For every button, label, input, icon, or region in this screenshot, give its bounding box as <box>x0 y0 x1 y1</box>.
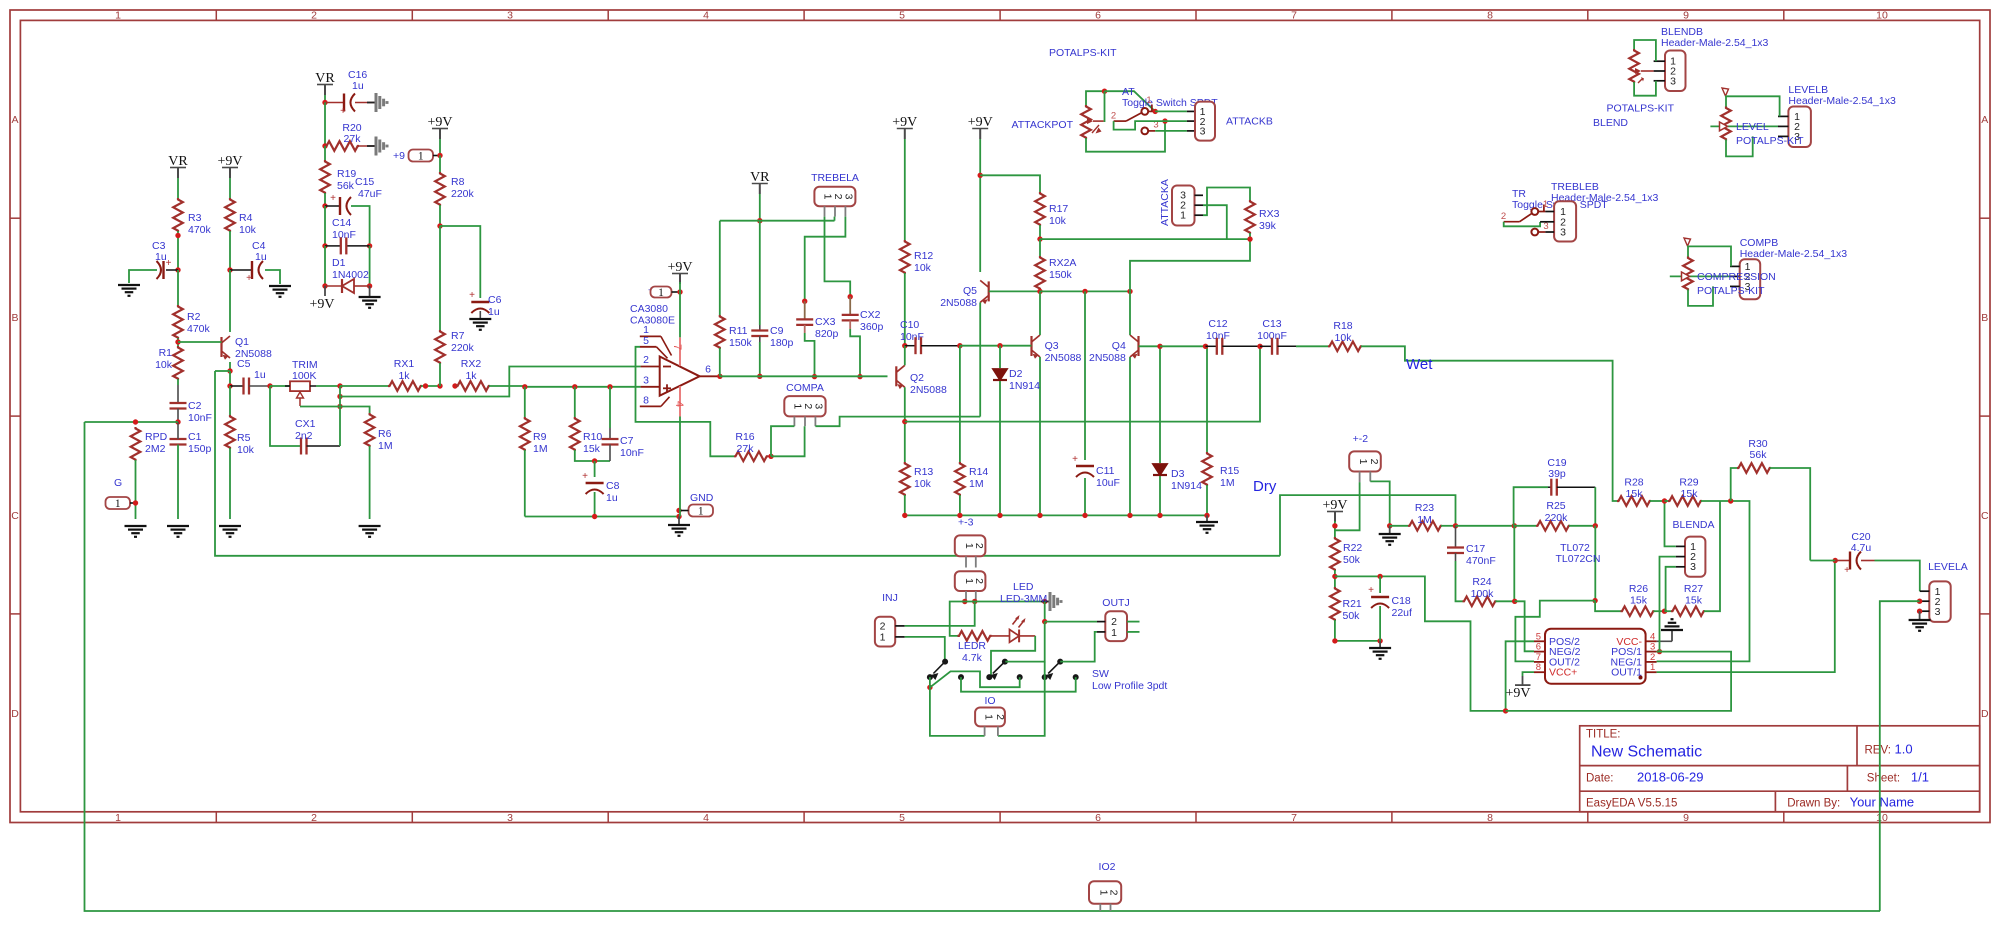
svg-text:Q3: Q3 <box>1045 340 1059 352</box>
wire Vb rail to POS/1 <box>1506 652 1732 711</box>
node C4/Q1 collector <box>227 267 232 272</box>
node C19/R25 left <box>1512 523 1517 528</box>
wire LED node down <box>1044 602 1046 622</box>
potentiometer TRIM <box>290 381 310 391</box>
wire +9V to R22 <box>1334 521 1336 537</box>
wire COMP pot top to pin1 <box>1688 246 1731 266</box>
node D2 top <box>997 343 1002 348</box>
transistor Q4 (mirrored) <box>1137 336 1139 356</box>
wire POS/1 stub <box>1657 651 1663 653</box>
wire pin5 bias loop to R16 <box>636 347 735 457</box>
capacitor C17 <box>1455 526 1457 548</box>
svg-text:Q4: Q4 <box>1112 340 1126 352</box>
wire rail to CA3080 pin3 <box>525 386 641 388</box>
wire C12 node to R15 <box>1206 346 1208 452</box>
svg-text:R29: R29 <box>1679 477 1698 489</box>
pin 6 output <box>700 375 720 377</box>
capacitor C11 <box>1076 465 1094 467</box>
svg-text:D: D <box>11 708 19 720</box>
svg-text:+: + <box>582 471 588 482</box>
svg-text:1: 1 <box>822 194 834 200</box>
svg-text:+9V: +9V <box>309 297 334 312</box>
wire output rail to Q2 base <box>720 375 888 377</box>
wire node up to R30 <box>1731 468 1737 501</box>
node Q2 emitter rail <box>902 419 907 424</box>
node D1 <box>322 283 327 288</box>
svg-text:220k: 220k <box>451 188 475 200</box>
node +9 <box>437 153 442 158</box>
svg-text:3: 3 <box>1560 227 1566 239</box>
wire TREBELA row to R11 <box>719 221 721 315</box>
svg-text:1u: 1u <box>254 369 266 381</box>
svg-text:10nF: 10nF <box>332 229 356 241</box>
svg-text:REV:: REV: <box>1865 745 1891 757</box>
stub <box>1206 345 1208 347</box>
svg-text:10k: 10k <box>155 359 173 371</box>
terminator flag (LED rail) <box>1041 601 1050 603</box>
svg-text:1: 1 <box>115 498 121 510</box>
potentiometer LEVEL <box>1721 107 1731 141</box>
wire R30 to C20 node <box>1770 468 1810 561</box>
resistor R18 <box>1328 342 1362 352</box>
node POS/1 <box>1657 649 1662 654</box>
svg-text:1: 1 <box>1097 890 1109 896</box>
svg-text:2: 2 <box>973 543 985 549</box>
svg-text:C9: C9 <box>770 325 784 337</box>
wire R21 to bottom <box>1335 620 1380 641</box>
ground (R5) <box>219 525 241 527</box>
svg-text:1: 1 <box>791 403 803 409</box>
svg-text:100k: 100k <box>1471 588 1495 600</box>
resistor RX2 <box>456 381 490 391</box>
wire COMPA pin1 to R16 <box>771 426 794 456</box>
svg-text:Header-Male-2.54_1x3: Header-Male-2.54_1x3 <box>1788 95 1896 107</box>
svg-text:7: 7 <box>1291 812 1297 824</box>
wire +9V to R12 <box>904 139 906 240</box>
node R23 right <box>1453 523 1458 528</box>
svg-text:220k: 220k <box>1545 512 1569 524</box>
wire COMPA pin2 to R16 node <box>771 426 805 456</box>
node C20 left <box>1833 558 1838 563</box>
svg-text:Date:: Date: <box>1586 773 1614 785</box>
resistor R2 <box>173 305 183 339</box>
svg-text:2: 2 <box>973 578 985 584</box>
node C12 left <box>1203 344 1208 349</box>
resistor R19 <box>320 160 330 194</box>
svg-text:Your Name: Your Name <box>1850 795 1915 810</box>
node C9 out <box>757 374 762 379</box>
svg-text:1: 1 <box>698 506 704 518</box>
node pot/wiper <box>1102 89 1107 94</box>
node Q1 emitter <box>227 368 232 373</box>
svg-text:C14: C14 <box>332 217 351 229</box>
node Q3 collector <box>1037 289 1042 294</box>
svg-text:C11: C11 <box>1096 465 1115 477</box>
transistor Q1 <box>220 337 222 357</box>
node C10 left <box>902 343 907 348</box>
wire TRIM node to RX1 <box>340 385 388 387</box>
svg-text:9: 9 <box>1683 812 1689 824</box>
svg-text:2: 2 <box>832 194 844 200</box>
wire rail to Q4 collector <box>1129 291 1131 335</box>
wire R4 to C4 node <box>229 231 231 270</box>
svg-text:6: 6 <box>1095 10 1101 22</box>
svg-text:7: 7 <box>1291 10 1297 22</box>
wire VCC+ to +9V flag <box>1523 672 1535 676</box>
svg-text:C18: C18 <box>1392 595 1411 607</box>
wire pin4 to gnd rail <box>679 417 681 517</box>
svg-text:+9V: +9V <box>1505 686 1530 701</box>
wire gnd rail <box>525 516 679 518</box>
wire R29 to NEG/1 <box>1657 501 1750 661</box>
svg-text:LED-3MM: LED-3MM <box>1000 593 1047 605</box>
svg-text:27k: 27k <box>344 133 362 145</box>
svg-text:2M2: 2M2 <box>145 443 166 455</box>
svg-text:2: 2 <box>1501 211 1506 222</box>
wire C4 node to Q1 collector <box>229 270 231 332</box>
wire wiper to R6 <box>300 407 370 414</box>
node Q1 base <box>175 339 180 344</box>
wire +-3 rail <box>905 514 1207 516</box>
svg-text:COMPA: COMPA <box>786 382 824 394</box>
node AT throw 1 <box>1153 109 1158 114</box>
wire Q2 collector up <box>904 346 906 366</box>
svg-text:R15: R15 <box>1220 465 1239 477</box>
ground (+-3 rail) <box>1206 515 1208 521</box>
wire R7 to rail <box>439 363 441 386</box>
wire base rail to Q3 <box>1000 345 1032 347</box>
svg-text:C: C <box>1981 510 1989 522</box>
wire C6 node to R7 <box>439 226 441 330</box>
svg-text:R19: R19 <box>337 168 356 180</box>
wire emitter bus to C13 <box>905 346 1260 421</box>
svg-text:OUT/1: OUT/1 <box>1611 667 1642 679</box>
wire +-2 pin1 to +9V node <box>1335 482 1360 530</box>
svg-text:1N4002: 1N4002 <box>332 269 369 281</box>
svg-text:2: 2 <box>802 403 814 409</box>
wire S1L to node <box>929 677 931 687</box>
wire to CA3080 pin 2 <box>340 367 641 397</box>
resistor R12 <box>900 240 910 274</box>
node C11 drop <box>1082 289 1087 294</box>
svg-text:8: 8 <box>643 395 649 407</box>
svg-text:R27: R27 <box>1684 583 1703 595</box>
svg-text:Wet: Wet <box>1406 356 1433 373</box>
svg-text:2018-06-29: 2018-06-29 <box>1637 770 1704 785</box>
svg-text:+: + <box>1844 565 1850 576</box>
potentiometer COMPRESSION <box>1683 257 1693 291</box>
node R26/R27 <box>1662 609 1667 614</box>
svg-text:TL072CN: TL072CN <box>1556 553 1601 565</box>
node VR row <box>757 218 762 223</box>
svg-text:POTALPS-KIT: POTALPS-KIT <box>1607 103 1675 115</box>
node R8/C6 <box>437 223 442 228</box>
wire to ATTACKB 2 <box>1165 120 1187 122</box>
svg-text:CA3080: CA3080 <box>630 303 668 315</box>
wire emitter to C5 <box>229 371 231 386</box>
svg-text:Q1: Q1 <box>235 336 249 348</box>
node S1 pole <box>927 685 932 690</box>
wire RX2 to op-amp rail <box>489 385 525 387</box>
svg-text:R6: R6 <box>378 428 392 440</box>
svg-text:1k: 1k <box>398 370 410 382</box>
svg-text:2: 2 <box>1108 890 1120 896</box>
svg-text:C13: C13 <box>1262 318 1281 330</box>
wire to S2 throw <box>1005 622 1044 662</box>
svg-text:ATTACKPOT: ATTACKPOT <box>1012 119 1074 131</box>
wire OUTJ pin1 stub <box>1127 631 1140 633</box>
wire R23 to Dry node <box>1441 525 1456 527</box>
wire stub TREBELA pin2 <box>834 217 836 221</box>
svg-text:R9: R9 <box>533 431 547 443</box>
svg-text:1M: 1M <box>378 440 393 452</box>
svg-text:15k: 15k <box>1626 488 1644 500</box>
svg-text:1M: 1M <box>1220 477 1235 489</box>
svg-text:10nF: 10nF <box>1206 330 1230 342</box>
resistor R7 <box>435 330 445 364</box>
svg-text:R3: R3 <box>188 212 202 224</box>
svg-text:5: 5 <box>899 812 905 824</box>
wire Q5 emitter down <box>979 302 981 416</box>
wire CX2 to output rail <box>850 329 860 377</box>
svg-text:Q2: Q2 <box>910 372 924 384</box>
wire pot bottom to pin2 node <box>1086 121 1165 152</box>
resistor RX3 <box>1245 200 1255 234</box>
svg-text:LEDR: LEDR <box>958 640 986 652</box>
terminator flag (R20) <box>367 145 376 147</box>
node AT pin2 <box>1162 118 1167 123</box>
svg-text:4.7k: 4.7k <box>962 652 983 664</box>
svg-text:A: A <box>1981 114 1988 126</box>
resistor R22 <box>1330 537 1340 571</box>
wire R20 to R19 <box>324 146 326 160</box>
svg-text:IO: IO <box>984 695 995 707</box>
svg-text:POTALPS-KIT: POTALPS-KIT <box>1697 285 1765 297</box>
resistor R10 <box>570 417 580 451</box>
ground (LEVELA) <box>1919 611 1921 619</box>
wire wiper tie <box>1103 91 1106 121</box>
wire Q4 base right <box>1139 345 1161 347</box>
wire emitter to long drop <box>215 370 230 372</box>
resistor RPD <box>131 427 141 461</box>
wire base rail to R14 <box>959 346 961 462</box>
svg-text:C5: C5 <box>237 358 251 370</box>
pin 7 (V+) <box>679 337 681 366</box>
ground (R6) <box>359 525 381 527</box>
svg-text:INJ: INJ <box>882 592 898 604</box>
svg-text:10nF: 10nF <box>188 412 212 424</box>
wire feedback node to R26 <box>1595 601 1620 612</box>
node J2 pins <box>962 599 967 604</box>
capacitor C5 <box>242 378 244 395</box>
node pin7 supply <box>677 289 682 294</box>
wire RX1 to R7 node <box>421 385 440 387</box>
svg-text:+: + <box>469 290 475 301</box>
wire +9V to Q5 collector <box>979 139 981 272</box>
wire to D1 <box>324 246 326 286</box>
svg-text:2: 2 <box>1111 111 1116 122</box>
wire VR to row <box>759 194 761 221</box>
wire VR to C16 <box>324 95 326 103</box>
svg-text:1: 1 <box>1543 199 1548 210</box>
wire S3 throw to OUTJ pin1 <box>1060 632 1097 662</box>
wire C19 right down <box>1594 487 1596 526</box>
wire gnd node to R23 <box>1390 525 1408 527</box>
svg-text:R8: R8 <box>451 176 465 188</box>
wire COMP wiper to pin2 <box>1670 275 1730 277</box>
svg-text:C12: C12 <box>1208 318 1227 330</box>
svg-text:CA3080E: CA3080E <box>630 315 675 327</box>
svg-text:150p: 150p <box>188 443 212 455</box>
wire C3 node to R2 <box>177 270 179 305</box>
wire TREBELA pin1 to CX2 <box>825 217 851 297</box>
node C7 top <box>607 384 612 389</box>
wire feedback right down <box>1594 526 1596 601</box>
wire R8 to C6 node <box>439 205 441 226</box>
svg-text:10k: 10k <box>914 262 932 274</box>
svg-text:10k: 10k <box>1049 215 1067 227</box>
svg-text:4: 4 <box>673 401 685 407</box>
svg-text:Header-Male-2.54_1x3: Header-Male-2.54_1x3 <box>1740 248 1848 260</box>
svg-text:2: 2 <box>994 714 1006 720</box>
wire R24 to summing node <box>1496 600 1515 602</box>
svg-text:+: + <box>330 193 336 204</box>
wire D3 to bias rail <box>1159 476 1161 515</box>
wire LEVEL pot bottom to pin3 <box>1726 136 1753 156</box>
svg-text:COMPRESSION: COMPRESSION <box>1697 271 1776 283</box>
wire R17 to node <box>1039 225 1041 239</box>
wire LEVEL pot top to pin1 <box>1726 96 1780 116</box>
resistor R4 <box>225 198 235 232</box>
svg-text:+-2: +-2 <box>1353 433 1369 445</box>
wire LEVELA pin2 to bottom bus <box>1880 601 1920 911</box>
ground (D1) <box>369 286 371 296</box>
wire RX2A to collector rail <box>1039 289 1041 291</box>
svg-text:15k: 15k <box>1630 595 1648 607</box>
capacitor CX3 <box>802 299 807 304</box>
wire POS/1 to BLENDA pin2 <box>1660 557 1676 652</box>
capacitor C1 <box>170 438 187 440</box>
wire to ATTACKB 1 <box>1155 110 1187 112</box>
ground (GND rail) <box>678 517 680 525</box>
node divider <box>1332 574 1337 579</box>
wire C20 to LEVELA pin1 <box>1875 561 1920 592</box>
svg-text:15k: 15k <box>583 443 601 455</box>
wire left loop up to C19 <box>1514 487 1548 526</box>
wire Q4 emitter to bias rail <box>1129 357 1131 515</box>
svg-text:R14: R14 <box>969 466 988 478</box>
node C2/C1/RPD <box>175 419 180 424</box>
wire base rail <box>960 345 1000 347</box>
node C18 top <box>1377 574 1382 579</box>
wire R19 to C15 <box>324 193 326 206</box>
wire rail to C7 <box>609 387 611 428</box>
svg-text:10k: 10k <box>237 444 255 456</box>
node bypass <box>1042 619 1047 624</box>
connector J1 (1 2) <box>955 535 986 556</box>
svg-text:1: 1 <box>1180 210 1186 222</box>
wire feedback to OUT/2 <box>1515 601 1595 662</box>
node RX1/R7 <box>423 383 428 388</box>
node RPD top <box>133 419 138 424</box>
node CX2 out <box>857 374 862 379</box>
svg-text:Sheet:: Sheet: <box>1867 773 1900 785</box>
wire C13 to R18 <box>1296 345 1328 347</box>
node feedback tie <box>1592 598 1597 603</box>
wire to OUTJ pin2 <box>1045 621 1097 623</box>
wire Q3 emitter to bias rail <box>1039 357 1041 515</box>
wire C3 to ground <box>129 270 157 283</box>
title block <box>1580 726 1980 812</box>
svg-text:SW: SW <box>1092 668 1109 680</box>
node RX3 <box>1247 236 1252 241</box>
svg-text:4: 4 <box>703 10 709 22</box>
svg-text:2N5088: 2N5088 <box>910 384 947 396</box>
svg-text:D: D <box>1981 708 1989 720</box>
svg-text:CX1: CX1 <box>295 418 316 430</box>
svg-text:50k: 50k <box>1343 554 1361 566</box>
svg-text:1u: 1u <box>606 492 618 504</box>
svg-text:2N5088: 2N5088 <box>1045 352 1082 364</box>
svg-text:27k: 27k <box>737 443 755 455</box>
svg-text:360p: 360p <box>860 321 884 333</box>
wire node to RX2A <box>1039 239 1041 256</box>
svg-text:R23: R23 <box>1415 502 1434 514</box>
svg-text:150k: 150k <box>729 337 753 349</box>
node C8 <box>592 458 597 463</box>
wire S3L to IO pin2 <box>998 662 1045 736</box>
svg-text:1: 1 <box>115 812 121 824</box>
wire AT pin2 jog <box>1114 121 1165 130</box>
svg-text:EasyEDA V5.5.15: EasyEDA V5.5.15 <box>1586 798 1677 810</box>
resistor RX1 <box>388 381 422 391</box>
svg-text:2: 2 <box>1368 459 1380 465</box>
svg-text:2N5088: 2N5088 <box>940 297 977 309</box>
wire input tap RPD row <box>85 421 179 423</box>
resistor LEDR <box>958 631 992 641</box>
wire RX3 node to collector rail <box>1130 239 1250 291</box>
svg-text:R12: R12 <box>914 250 933 262</box>
wire OUT/1 to C20 <box>1657 561 1835 673</box>
wire R11 to output node <box>719 348 721 376</box>
svg-text:CX3: CX3 <box>815 316 836 328</box>
wire +9V to pin7 <box>679 282 681 337</box>
wire VR to R3 <box>177 178 179 198</box>
pin 4 (V-) <box>679 386 681 417</box>
ground flipped (VCC-) <box>1657 640 1672 642</box>
svg-text:820p: 820p <box>815 328 839 340</box>
resistor R5 <box>225 415 235 449</box>
svg-text:150k: 150k <box>1049 269 1073 281</box>
wire R26 to junction <box>1654 610 1665 612</box>
wire TRIM to RX1 node <box>316 385 340 387</box>
wire C17 to R24 <box>1456 561 1463 601</box>
resistor R13 <box>900 462 910 496</box>
svg-text:C6: C6 <box>488 294 502 306</box>
svg-text:3: 3 <box>1200 126 1206 138</box>
wire C5 node to R5 <box>229 386 231 415</box>
node Q4 collector <box>1127 289 1132 294</box>
svg-text:470k: 470k <box>188 224 212 236</box>
wire BLENDA pin1 to R28/R29 <box>1665 501 1676 546</box>
node Q4 base <box>1157 344 1162 349</box>
svg-text:R22: R22 <box>1343 542 1362 554</box>
svg-text:7: 7 <box>671 344 683 350</box>
svg-text:1k: 1k <box>465 370 477 382</box>
wire rail to C11 <box>1084 291 1086 460</box>
svg-text:C8: C8 <box>606 480 620 492</box>
svg-text:R4: R4 <box>239 212 253 224</box>
